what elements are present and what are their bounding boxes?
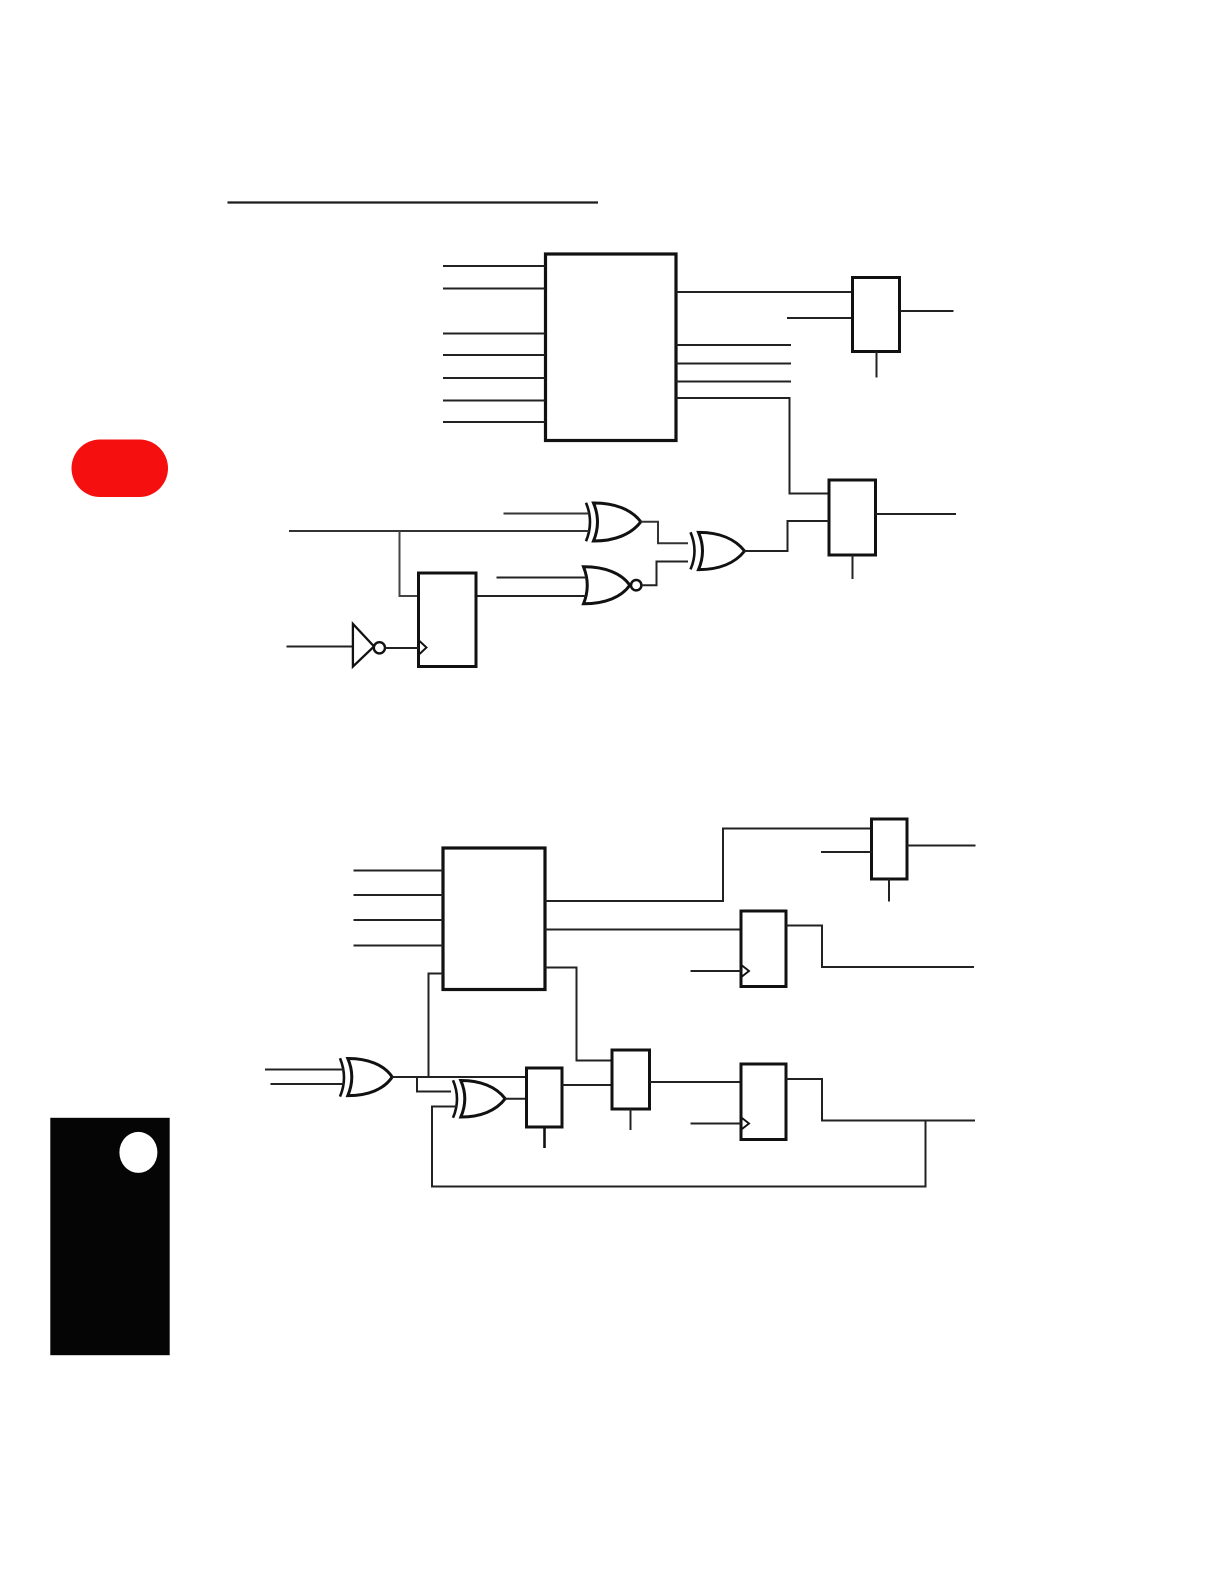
- flip-flop FF1: [419, 573, 477, 667]
- wire U7 output to FF3 D: [650, 1081, 742, 1083]
- wire U4 output 2 to FF2 D: [545, 929, 741, 931]
- wire U6 bottom stub: [543, 1127, 546, 1148]
- inverter G4 triangle: [353, 624, 374, 667]
- xor-gate G1 body: [594, 503, 641, 541]
- flip-flop FF2: [741, 911, 786, 987]
- wire U1 input 7: [443, 421, 545, 423]
- wire U4 output 1 to U5: [545, 829, 872, 902]
- wire G5 input B: [271, 1083, 345, 1085]
- wire branch to FF1 D input: [400, 531, 419, 596]
- wire U4 input 3: [354, 919, 444, 921]
- black photo placeholder block: [50, 1118, 169, 1355]
- block U6: [527, 1068, 563, 1127]
- wire G5 input A: [265, 1069, 344, 1071]
- wire FF2 Q output: [786, 926, 974, 968]
- wire G5 output net to U6: [392, 1076, 527, 1078]
- wire U5 second input: [821, 851, 872, 853]
- FF1 clock triangle: [420, 641, 427, 654]
- xor-gate G5 body: [348, 1058, 392, 1095]
- wire U5 bottom stub: [888, 879, 890, 902]
- red stamp oval: [72, 440, 169, 498]
- wire G2 input A: [497, 577, 587, 579]
- IC U4: [443, 848, 545, 990]
- nor-gate G2 body: [584, 567, 630, 604]
- wire inverter output to FF1 clock: [385, 647, 419, 649]
- wire U1 input 6: [443, 400, 545, 402]
- wire U1 input 5: [443, 377, 545, 379]
- wire U4 left stub down: [429, 974, 444, 1077]
- wire FF1 Q to G2 input B: [476, 595, 586, 597]
- wire G1 output to G3: [641, 522, 689, 544]
- wire U3 bottom stub: [852, 555, 854, 579]
- wire U2 second input: [787, 317, 853, 319]
- wire U1 output 1 to U2: [676, 291, 853, 293]
- wire U1 input 4: [443, 354, 545, 356]
- wire G2 output to G3: [642, 562, 689, 586]
- wire FF3 Q output: [786, 1079, 975, 1121]
- wire FF3 clock input: [691, 1123, 742, 1125]
- wire U4 input 2: [354, 894, 444, 896]
- xor-gate G3 body: [699, 532, 745, 569]
- FF3 clock triangle: [742, 1118, 749, 1129]
- wire U2 output: [900, 310, 954, 312]
- white circle in black block: [119, 1132, 157, 1173]
- wire U7 bottom stub: [630, 1109, 632, 1130]
- xor-gate G6 body: [461, 1080, 505, 1117]
- xor-gate G5 input arc: [340, 1058, 344, 1096]
- nor-gate G2 bubble: [631, 580, 641, 590]
- wire step down to G6 input A: [417, 1077, 451, 1092]
- wire U4 input 1: [354, 870, 444, 872]
- wire inverter input: [287, 646, 353, 648]
- wire U3 output: [876, 513, 957, 515]
- wire G1 input A: [504, 513, 590, 515]
- wire G3 output to U3: [745, 521, 830, 551]
- wire U1 input 1: [443, 265, 545, 267]
- wire U1 output 4: [676, 381, 791, 383]
- wire U4 output 3 to U7: [545, 968, 612, 1061]
- wire G1 input B: [289, 530, 589, 532]
- wire U1 output 5 to U3: [676, 398, 829, 494]
- block U3: [829, 480, 876, 555]
- xor-gate G6 input arc: [453, 1080, 457, 1118]
- wire G6 output to U6: [505, 1098, 527, 1100]
- wire U1 input 2: [443, 288, 545, 290]
- block U2: [853, 278, 900, 352]
- wire U5 output: [907, 845, 976, 847]
- flip-flop FF3: [741, 1064, 786, 1140]
- wire U4 input 4: [354, 945, 444, 947]
- wire U1 output 3: [676, 363, 791, 365]
- IC U1: [546, 254, 677, 441]
- FF2 clock triangle: [742, 966, 749, 977]
- xor-gate G1 input arc: [586, 503, 590, 542]
- wire U1 output 2: [676, 344, 791, 346]
- title underline: [228, 201, 599, 203]
- wire FF2 clock input: [691, 970, 742, 972]
- block U7: [612, 1050, 650, 1109]
- wire feedback loop to G6 input B: [432, 1107, 926, 1187]
- inverter G4 bubble: [374, 642, 385, 653]
- xor-gate G3 input arc: [691, 532, 695, 569]
- wire U6 output to U7: [562, 1084, 612, 1086]
- block U5: [872, 819, 908, 879]
- wire U2 bottom stub: [876, 352, 878, 378]
- wire U1 input 3: [443, 333, 545, 335]
